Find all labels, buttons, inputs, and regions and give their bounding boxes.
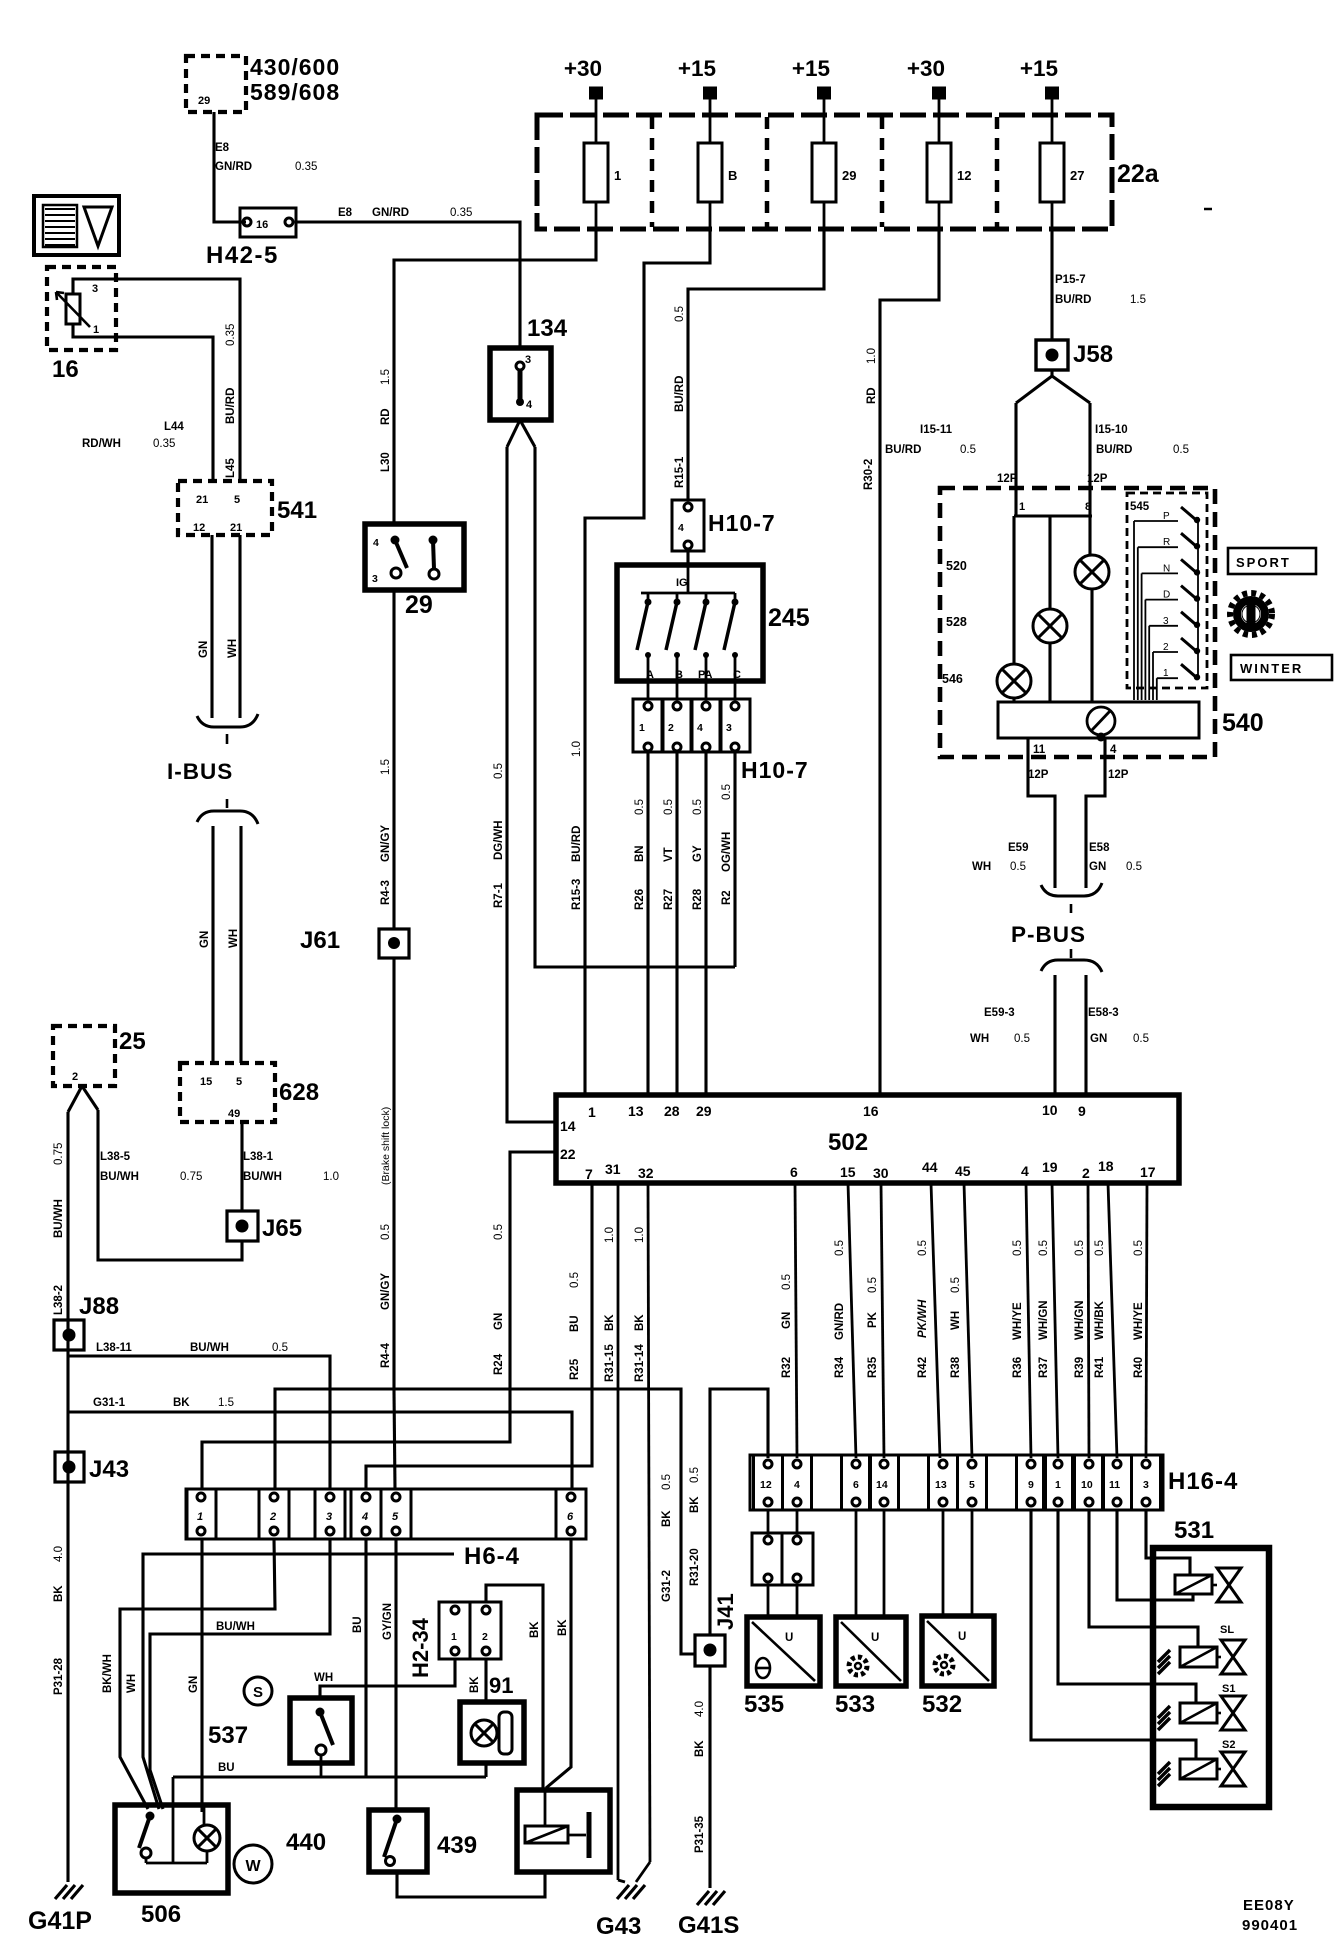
svg-text:0.5: 0.5 xyxy=(663,799,675,815)
svg-text:E59-3: E59-3 xyxy=(984,1007,1015,1019)
wire from 16 pin 3 xyxy=(73,279,240,481)
connector H2-34 xyxy=(439,1602,501,1659)
svg-text:BK: BK xyxy=(634,1314,646,1331)
svg-text:L38-5: L38-5 xyxy=(100,1151,131,1163)
svg-text:H10-7: H10-7 xyxy=(741,757,809,783)
svg-text:GN/GY: GN/GY xyxy=(380,825,392,862)
twisted pair fork below 25 xyxy=(68,1086,82,1112)
svg-text:13: 13 xyxy=(628,1103,644,1119)
lamp 546 xyxy=(997,664,1031,698)
svg-text:5: 5 xyxy=(969,1479,975,1491)
svg-text:430/600: 430/600 xyxy=(250,54,340,80)
wire from fuse B to 502 pin 1 (BU/RD R15-3) xyxy=(585,229,710,1095)
svg-text:4: 4 xyxy=(1110,744,1117,756)
svg-text:18: 18 xyxy=(1098,1158,1114,1174)
P-BUS break lower brace xyxy=(1070,949,1073,958)
wire WH/GN R39 from 502 to connector xyxy=(1088,1183,1089,1458)
svg-text:S: S xyxy=(253,1684,263,1701)
internal distribution in 540 xyxy=(1014,488,1017,516)
svg-text:BU/WH: BU/WH xyxy=(53,1199,65,1238)
svg-text:GN: GN xyxy=(493,1313,505,1330)
svg-text:P15-7: P15-7 xyxy=(1055,274,1086,286)
svg-text:0.5: 0.5 xyxy=(634,799,646,815)
svg-text:+30: +30 xyxy=(907,56,945,81)
return wire solenoid top to H16-4 pin 11 xyxy=(1117,1510,1193,1600)
wire BK R31-14 from 502 to connector xyxy=(648,1183,650,1862)
wire H6-4 pin 6 bottom (BK) to shift-lock solenoid xyxy=(546,1539,571,1788)
svg-text:0.35: 0.35 xyxy=(153,438,175,450)
svg-text:R25: R25 xyxy=(569,1358,581,1380)
svg-text:P-BUS: P-BUS xyxy=(1011,922,1086,947)
svg-text:SL: SL xyxy=(1220,1624,1234,1636)
svg-text:15: 15 xyxy=(200,1076,212,1088)
svg-text:W: W xyxy=(245,1858,261,1875)
svg-text:0.5: 0.5 xyxy=(1012,1240,1024,1256)
svg-text:WH: WH xyxy=(314,1672,333,1684)
ground G41P xyxy=(55,1885,67,1899)
svg-text:GN: GN xyxy=(199,931,211,948)
svg-text:1.0: 1.0 xyxy=(323,1171,339,1183)
svg-text:7: 7 xyxy=(585,1166,593,1182)
wire H6-4 pin 2 bottom to 506 (BK/WH) xyxy=(120,1539,275,1809)
svg-text:(Brake shift lock): (Brake shift lock) xyxy=(380,1107,392,1185)
sensor 16 (outside temperature, dashed box) xyxy=(47,267,116,350)
svg-text:GN: GN xyxy=(781,1312,793,1329)
svg-text:439: 439 xyxy=(437,1832,477,1859)
svg-text:BK: BK xyxy=(694,1740,706,1757)
svg-text:3: 3 xyxy=(326,1511,332,1523)
svg-text:WH/GN: WH/GN xyxy=(1074,1300,1086,1340)
svg-text:BU/RD: BU/RD xyxy=(674,376,686,412)
svg-text:12P: 12P xyxy=(1028,769,1049,781)
svg-text:15: 15 xyxy=(840,1164,856,1180)
svg-text:BU/RD: BU/RD xyxy=(571,826,583,862)
svg-text:0.5: 0.5 xyxy=(917,1240,929,1256)
svg-text:245: 245 xyxy=(768,604,810,632)
svg-text:R35: R35 xyxy=(867,1356,879,1378)
svg-text:BU/WH: BU/WH xyxy=(100,1171,139,1183)
svg-text:528: 528 xyxy=(946,615,967,629)
wire L38-2 BU/WH down to J88/J43/G41P xyxy=(66,1112,69,1882)
wire E8 GN/RD from 430/600 to H42-5 xyxy=(214,112,246,222)
svg-text:EE08Y: EE08Y xyxy=(1243,1897,1295,1914)
solenoid symbol xyxy=(525,1826,568,1843)
switch contact C in 245 xyxy=(734,593,737,600)
wire H6-4 pin 3 bottom to 506 xyxy=(150,1539,330,1809)
svg-text:0.5: 0.5 xyxy=(834,1240,846,1256)
svg-text:0.5: 0.5 xyxy=(674,306,686,322)
svg-text:WH: WH xyxy=(126,1674,138,1693)
wire PK R35 from 502 to connector xyxy=(881,1183,884,1458)
svg-text:0.5: 0.5 xyxy=(1133,1033,1149,1045)
wire H6-4 pin 4 bottom (BU) to lamp 91 rail xyxy=(364,1539,367,1777)
svg-text:WH/BK: WH/BK xyxy=(1094,1300,1106,1340)
ignition switch 245 xyxy=(617,565,763,681)
svg-text:0.5: 0.5 xyxy=(689,1467,701,1483)
gear symbol in 533 xyxy=(849,1657,867,1675)
svg-text:0.5: 0.5 xyxy=(692,799,704,815)
svg-text:R39: R39 xyxy=(1074,1357,1086,1378)
lamp 528 xyxy=(1033,609,1067,643)
svg-text:BU: BU xyxy=(352,1616,364,1633)
stub from 537 to BU rail xyxy=(320,1763,323,1777)
svg-text:RD: RD xyxy=(380,408,392,425)
svg-text:WH: WH xyxy=(970,1033,989,1045)
svg-text:GY/GN: GY/GN xyxy=(382,1603,394,1640)
svg-text:0.5: 0.5 xyxy=(1014,1033,1030,1045)
W symbol xyxy=(234,1845,272,1883)
svg-text:134: 134 xyxy=(527,315,568,342)
svg-text:R28: R28 xyxy=(692,888,704,910)
svg-text:R31-20: R31-20 xyxy=(689,1548,701,1586)
wire from fuse 1 to relay 29 (RD 1.5 L30) xyxy=(394,229,596,524)
svg-text:GN/RD: GN/RD xyxy=(834,1303,846,1340)
svg-text:1: 1 xyxy=(93,324,99,336)
svg-text:J65: J65 xyxy=(262,1215,302,1242)
svg-text:4.0: 4.0 xyxy=(694,1701,706,1717)
svg-text:1.5: 1.5 xyxy=(218,1397,234,1409)
svg-text:10: 10 xyxy=(1081,1479,1093,1491)
svg-text:4: 4 xyxy=(1021,1163,1029,1179)
svg-text:0.5: 0.5 xyxy=(1038,1240,1050,1256)
svg-text:11: 11 xyxy=(1109,1479,1120,1491)
gear position switch block 545 (dashed box) xyxy=(1127,493,1207,688)
svg-text:4: 4 xyxy=(794,1479,800,1491)
svg-text:5: 5 xyxy=(234,494,240,506)
wire BK R31-15 from 502 to connector xyxy=(617,1183,620,1880)
svg-text:+15: +15 xyxy=(792,56,830,81)
wire WH/GN R37 from 502 to connector xyxy=(1052,1183,1058,1458)
svg-text:29: 29 xyxy=(405,591,433,619)
wire from fuse 12 to 502 pin 16 (RD R30-2) xyxy=(880,229,939,1095)
svg-text:1: 1 xyxy=(639,722,645,734)
svg-text:BK: BK xyxy=(53,1585,65,1602)
svg-text:L45: L45 xyxy=(225,458,237,478)
svg-text:1: 1 xyxy=(1019,501,1025,513)
svg-text:H42-5: H42-5 xyxy=(206,242,279,269)
wire WH R38 from 502 to connector xyxy=(964,1183,972,1458)
gear mode selector icon xyxy=(1230,593,1272,635)
connector H10-7 4-pole xyxy=(633,699,663,752)
svg-text:SPORT: SPORT xyxy=(1236,555,1291,570)
svg-text:0.5: 0.5 xyxy=(1094,1240,1106,1256)
svg-text:0.5: 0.5 xyxy=(781,1274,793,1290)
svg-text:2: 2 xyxy=(482,1631,488,1643)
wire 4.0 BK P31-35 from J41 to ground G41S xyxy=(708,1666,711,1888)
wire WH from H2-34 pin 1 region to 506 xyxy=(143,1554,454,1809)
wire rail BU from 506 to 91 xyxy=(484,1763,487,1777)
P-BUS break upper brace xyxy=(1041,883,1102,896)
svg-text:IG: IG xyxy=(676,577,688,589)
svg-text:990401: 990401 xyxy=(1242,1917,1298,1934)
svg-text:3: 3 xyxy=(525,354,531,366)
svg-text:BU/WH: BU/WH xyxy=(216,1621,255,1633)
svg-text:29: 29 xyxy=(198,95,210,107)
svg-text:A: A xyxy=(646,669,654,681)
svg-text:G41P: G41P xyxy=(28,1907,92,1935)
svg-text:P31-28: P31-28 xyxy=(53,1657,65,1695)
svg-text:440: 440 xyxy=(286,1829,326,1856)
svg-text:28: 28 xyxy=(664,1103,680,1119)
svg-text:GN/GY: GN/GY xyxy=(380,1273,392,1310)
svg-text:0.5: 0.5 xyxy=(272,1342,288,1354)
svg-text:12P: 12P xyxy=(997,473,1018,485)
lamp 520 xyxy=(1075,555,1109,589)
svg-text:GN: GN xyxy=(188,1676,200,1693)
svg-text:502: 502 xyxy=(828,1129,868,1156)
svg-text:12: 12 xyxy=(193,522,205,534)
solenoid S2 in 531 fed by H16-4 pin 9 xyxy=(1031,1510,1196,1759)
svg-text:535: 535 xyxy=(744,1691,784,1718)
svg-text:3: 3 xyxy=(726,722,732,734)
junction J43 xyxy=(55,1452,84,1482)
svg-text:4: 4 xyxy=(526,399,533,411)
svg-text:12: 12 xyxy=(760,1479,772,1491)
common bus of 545 switches xyxy=(1197,517,1199,676)
svg-text:1.0: 1.0 xyxy=(571,741,583,757)
wire H10-7 to ignition switch 245 xyxy=(686,551,689,565)
svg-text:1.5: 1.5 xyxy=(1130,294,1146,306)
svg-text:532: 532 xyxy=(922,1691,962,1718)
wire L38-1 BU/WH from 628 pin 49 to J65 xyxy=(240,1122,243,1211)
svg-text:27: 27 xyxy=(1070,168,1084,183)
svg-text:30: 30 xyxy=(873,1165,889,1181)
wire L38-5 BU/WH from 25 to J65 xyxy=(98,1110,242,1260)
solenoid SL in 531 fed by H16-4 pin 10 xyxy=(1089,1510,1198,1647)
svg-text:WH: WH xyxy=(972,861,991,873)
svg-text:BU/WH: BU/WH xyxy=(190,1342,229,1354)
svg-text:BU/RD: BU/RD xyxy=(1055,294,1091,306)
svg-text:5: 5 xyxy=(392,1511,399,1523)
svg-text:2: 2 xyxy=(72,1071,78,1083)
svg-text:0.35: 0.35 xyxy=(450,207,472,219)
svg-text:49: 49 xyxy=(228,1108,240,1120)
solenoid STH (top) in 531 fed by H16-4 pin 3 xyxy=(1146,1510,1190,1575)
svg-text:R36: R36 xyxy=(1012,1357,1024,1378)
wire from fuse 27 to J58 (P15-7 BU/RD 1.5) xyxy=(1050,229,1053,340)
wire from H6-4 pin 2 to junction J41 xyxy=(275,1389,695,1654)
svg-text:E8: E8 xyxy=(338,207,353,219)
wire BU R25 from 502 pin 7 to H6-4 pin 4 xyxy=(366,1183,592,1489)
svg-text:H6-4: H6-4 xyxy=(464,1543,520,1570)
junction J88 xyxy=(54,1320,84,1350)
svg-text:PA: PA xyxy=(698,669,713,681)
junction J61 xyxy=(379,929,409,958)
svg-text:13: 13 xyxy=(935,1479,947,1491)
svg-text:U: U xyxy=(958,1631,966,1643)
wire from 134 fork to R2 wire of gear selector xyxy=(535,447,735,967)
wire WH/YE R40 from 502 to connector xyxy=(1146,1183,1147,1458)
wire GN/GY R4-4 (Brake shift lock) from J61 to H6-4 pin 5 xyxy=(392,958,395,1391)
svg-text:R34: R34 xyxy=(834,1356,846,1378)
svg-text:21: 21 xyxy=(230,522,242,534)
svg-text:2: 2 xyxy=(668,722,674,734)
svg-text:R27: R27 xyxy=(663,889,675,910)
connector 541 (dashed box) xyxy=(178,481,272,535)
svg-text:12P: 12P xyxy=(1087,473,1108,485)
svg-text:DG/WH: DG/WH xyxy=(493,820,505,860)
svg-text:0.5: 0.5 xyxy=(1126,861,1142,873)
svg-text:3: 3 xyxy=(1143,1479,1149,1491)
relay 29 switch 2 xyxy=(429,536,438,545)
lamp in 506 xyxy=(203,1805,206,1825)
switch in 506 xyxy=(146,1812,155,1821)
wire PK/WH R42 from 502 to connector xyxy=(931,1183,940,1458)
svg-text:0.5: 0.5 xyxy=(721,784,733,800)
wire L38-11 BU/WH from J88 to H6-4 pin 3 xyxy=(68,1356,330,1489)
wire WH/YE R36 from 502 to connector xyxy=(1026,1183,1031,1458)
shift interlock switch 537 xyxy=(290,1698,352,1763)
svg-text:3: 3 xyxy=(372,573,378,585)
svg-text:9: 9 xyxy=(1028,1479,1034,1491)
svg-text:R15-3: R15-3 xyxy=(571,879,583,910)
svg-text:+15: +15 xyxy=(678,56,716,81)
svg-text:0.5: 0.5 xyxy=(493,1224,505,1240)
svg-text:0.5: 0.5 xyxy=(380,1224,392,1240)
svg-text:0.5: 0.5 xyxy=(569,1272,581,1288)
wire E8 GN/RD from H42-5 to node 134 xyxy=(296,222,520,348)
svg-text:BU/RD: BU/RD xyxy=(885,444,921,456)
svg-text:L30: L30 xyxy=(380,452,392,472)
wires from 540 pins 11 and 4 to P-BUS xyxy=(1028,738,1055,888)
svg-text:0.75: 0.75 xyxy=(53,1143,65,1165)
relay 29 switch 1 xyxy=(391,536,400,545)
svg-text:R37: R37 xyxy=(1038,1357,1050,1378)
connector H10-7 (single) xyxy=(672,500,704,551)
svg-text:1: 1 xyxy=(614,168,621,183)
switch contact A in 245 xyxy=(647,593,650,600)
svg-text:H10-7: H10-7 xyxy=(708,510,776,536)
relay 29 xyxy=(365,524,464,590)
svg-text:B: B xyxy=(728,168,737,183)
svg-text:0.35: 0.35 xyxy=(295,161,317,173)
svg-text:45: 45 xyxy=(955,1163,971,1179)
svg-text:R7-1: R7-1 xyxy=(493,882,505,908)
svg-text:R24: R24 xyxy=(493,1353,505,1375)
svg-text:L44: L44 xyxy=(164,421,184,433)
wire OG/WH R2 from H10-7 pin 3 to node of 134 xyxy=(733,752,736,967)
connector 25 (dashed box) xyxy=(53,1026,115,1086)
wire BN R26 from H10-7 pin 1 to 502 pin 13 xyxy=(646,752,649,1095)
fuse 12 of 22a with terminal +30 xyxy=(880,117,885,227)
svg-text:537: 537 xyxy=(208,1722,248,1749)
svg-text:21: 21 xyxy=(196,494,208,506)
svg-text:WH/YE: WH/YE xyxy=(1133,1302,1145,1340)
wire VT R27 from H10-7 pin 2 to 502 pin 28 xyxy=(675,752,678,1095)
svg-text:GN: GN xyxy=(1090,1033,1107,1045)
svg-text:GN: GN xyxy=(1089,861,1106,873)
ground bus G31-1 BK from J43 to H6-4 pin 6 xyxy=(68,1412,572,1489)
svg-text:2: 2 xyxy=(269,1511,276,1523)
junction J58 xyxy=(1036,340,1068,370)
svg-text:H2-34: H2-34 xyxy=(408,1617,433,1678)
twisted pair from J58 to gear selector 540 xyxy=(1050,370,1053,376)
shift-lock solenoid box xyxy=(517,1790,610,1872)
gear position switch 439 xyxy=(369,1810,427,1872)
svg-text:G31-1: G31-1 xyxy=(93,1397,126,1409)
svg-text:25: 25 xyxy=(119,1028,146,1055)
wires 31/32 of 502 to ground G43 xyxy=(636,1862,650,1882)
svg-text:1.0: 1.0 xyxy=(604,1227,616,1243)
svg-text:E58-3: E58-3 xyxy=(1088,1007,1119,1019)
connector 628 (dashed box) xyxy=(180,1063,275,1122)
svg-text:E59: E59 xyxy=(1008,842,1028,854)
svg-text:1.5: 1.5 xyxy=(380,369,392,385)
svg-text:BU: BU xyxy=(569,1315,581,1332)
svg-text:WH: WH xyxy=(228,929,240,948)
svg-text:J43: J43 xyxy=(89,1456,129,1483)
svg-text:9: 9 xyxy=(1078,1103,1086,1119)
svg-text:WH: WH xyxy=(950,1311,962,1330)
svg-text:545: 545 xyxy=(1130,501,1150,513)
svg-text:BU/RD: BU/RD xyxy=(1096,444,1132,456)
solenoid valve block 531 xyxy=(1153,1548,1269,1807)
svg-text:PK/WH: PK/WH xyxy=(917,1299,929,1338)
svg-text:4: 4 xyxy=(373,537,379,549)
svg-text:BK: BK xyxy=(469,1676,481,1693)
switch contact PA in 245 xyxy=(705,593,708,600)
svg-text:E8: E8 xyxy=(215,142,230,154)
svg-text:0.5: 0.5 xyxy=(960,444,976,456)
svg-text:1.0: 1.0 xyxy=(866,348,878,364)
svg-text:BU: BU xyxy=(218,1762,235,1774)
svg-text:R41: R41 xyxy=(1094,1356,1106,1378)
wire GN R32 from 502 to connector xyxy=(795,1183,797,1458)
2-pole connector below H16-4 xyxy=(767,1510,770,1533)
svg-text:4.0: 4.0 xyxy=(53,1546,65,1562)
fuse B of 22a with terminal +15 xyxy=(650,117,655,227)
svg-text:RD/WH: RD/WH xyxy=(82,438,121,450)
svg-text:520: 520 xyxy=(946,559,967,573)
svg-text:I15-10: I15-10 xyxy=(1095,424,1128,436)
svg-text:6: 6 xyxy=(567,1511,574,1523)
svg-text:3: 3 xyxy=(92,283,98,295)
svg-text:10: 10 xyxy=(1042,1102,1058,1118)
S symbol xyxy=(244,1677,272,1705)
svg-text:540: 540 xyxy=(1222,709,1264,737)
illumination lamp on bar xyxy=(1087,707,1115,735)
wires to temp sensor 535 xyxy=(767,1585,770,1617)
svg-text:1: 1 xyxy=(1055,1479,1061,1491)
svg-text:19: 19 xyxy=(1042,1159,1058,1175)
connector 134 xyxy=(490,348,551,420)
svg-text:11: 11 xyxy=(1033,744,1046,756)
svg-text:GY: GY xyxy=(692,845,704,862)
transmission temperature sensor 535 xyxy=(747,1617,820,1686)
svg-text:0.75: 0.75 xyxy=(180,1171,202,1183)
svg-text:91: 91 xyxy=(489,1673,513,1698)
svg-text:BK: BK xyxy=(529,1621,541,1638)
svg-text:R40: R40 xyxy=(1133,1357,1145,1378)
svg-text:17: 17 xyxy=(1140,1164,1156,1180)
lamp unit 91 xyxy=(460,1702,524,1763)
svg-text:R38: R38 xyxy=(950,1356,962,1378)
bulb/connector bar in 540 xyxy=(998,702,1199,738)
WINTER indicator box xyxy=(1231,655,1332,680)
wire WH/BK R41 from 502 to connector xyxy=(1108,1183,1117,1458)
svg-text:1.0: 1.0 xyxy=(634,1227,646,1243)
svg-text:29: 29 xyxy=(842,168,856,183)
svg-text:J58: J58 xyxy=(1073,341,1113,368)
svg-text:22a: 22a xyxy=(1117,160,1160,188)
selector illumination unit 506 xyxy=(115,1805,228,1893)
svg-text:R2: R2 xyxy=(721,890,733,905)
fuse 29 of 22a with terminal +15 xyxy=(765,117,770,227)
wires to speed sensor 533 xyxy=(855,1510,858,1617)
svg-text:0.35: 0.35 xyxy=(225,324,237,346)
svg-text:P31-35: P31-35 xyxy=(694,1815,706,1853)
I-BUS wires resume to 628 xyxy=(211,826,214,1063)
